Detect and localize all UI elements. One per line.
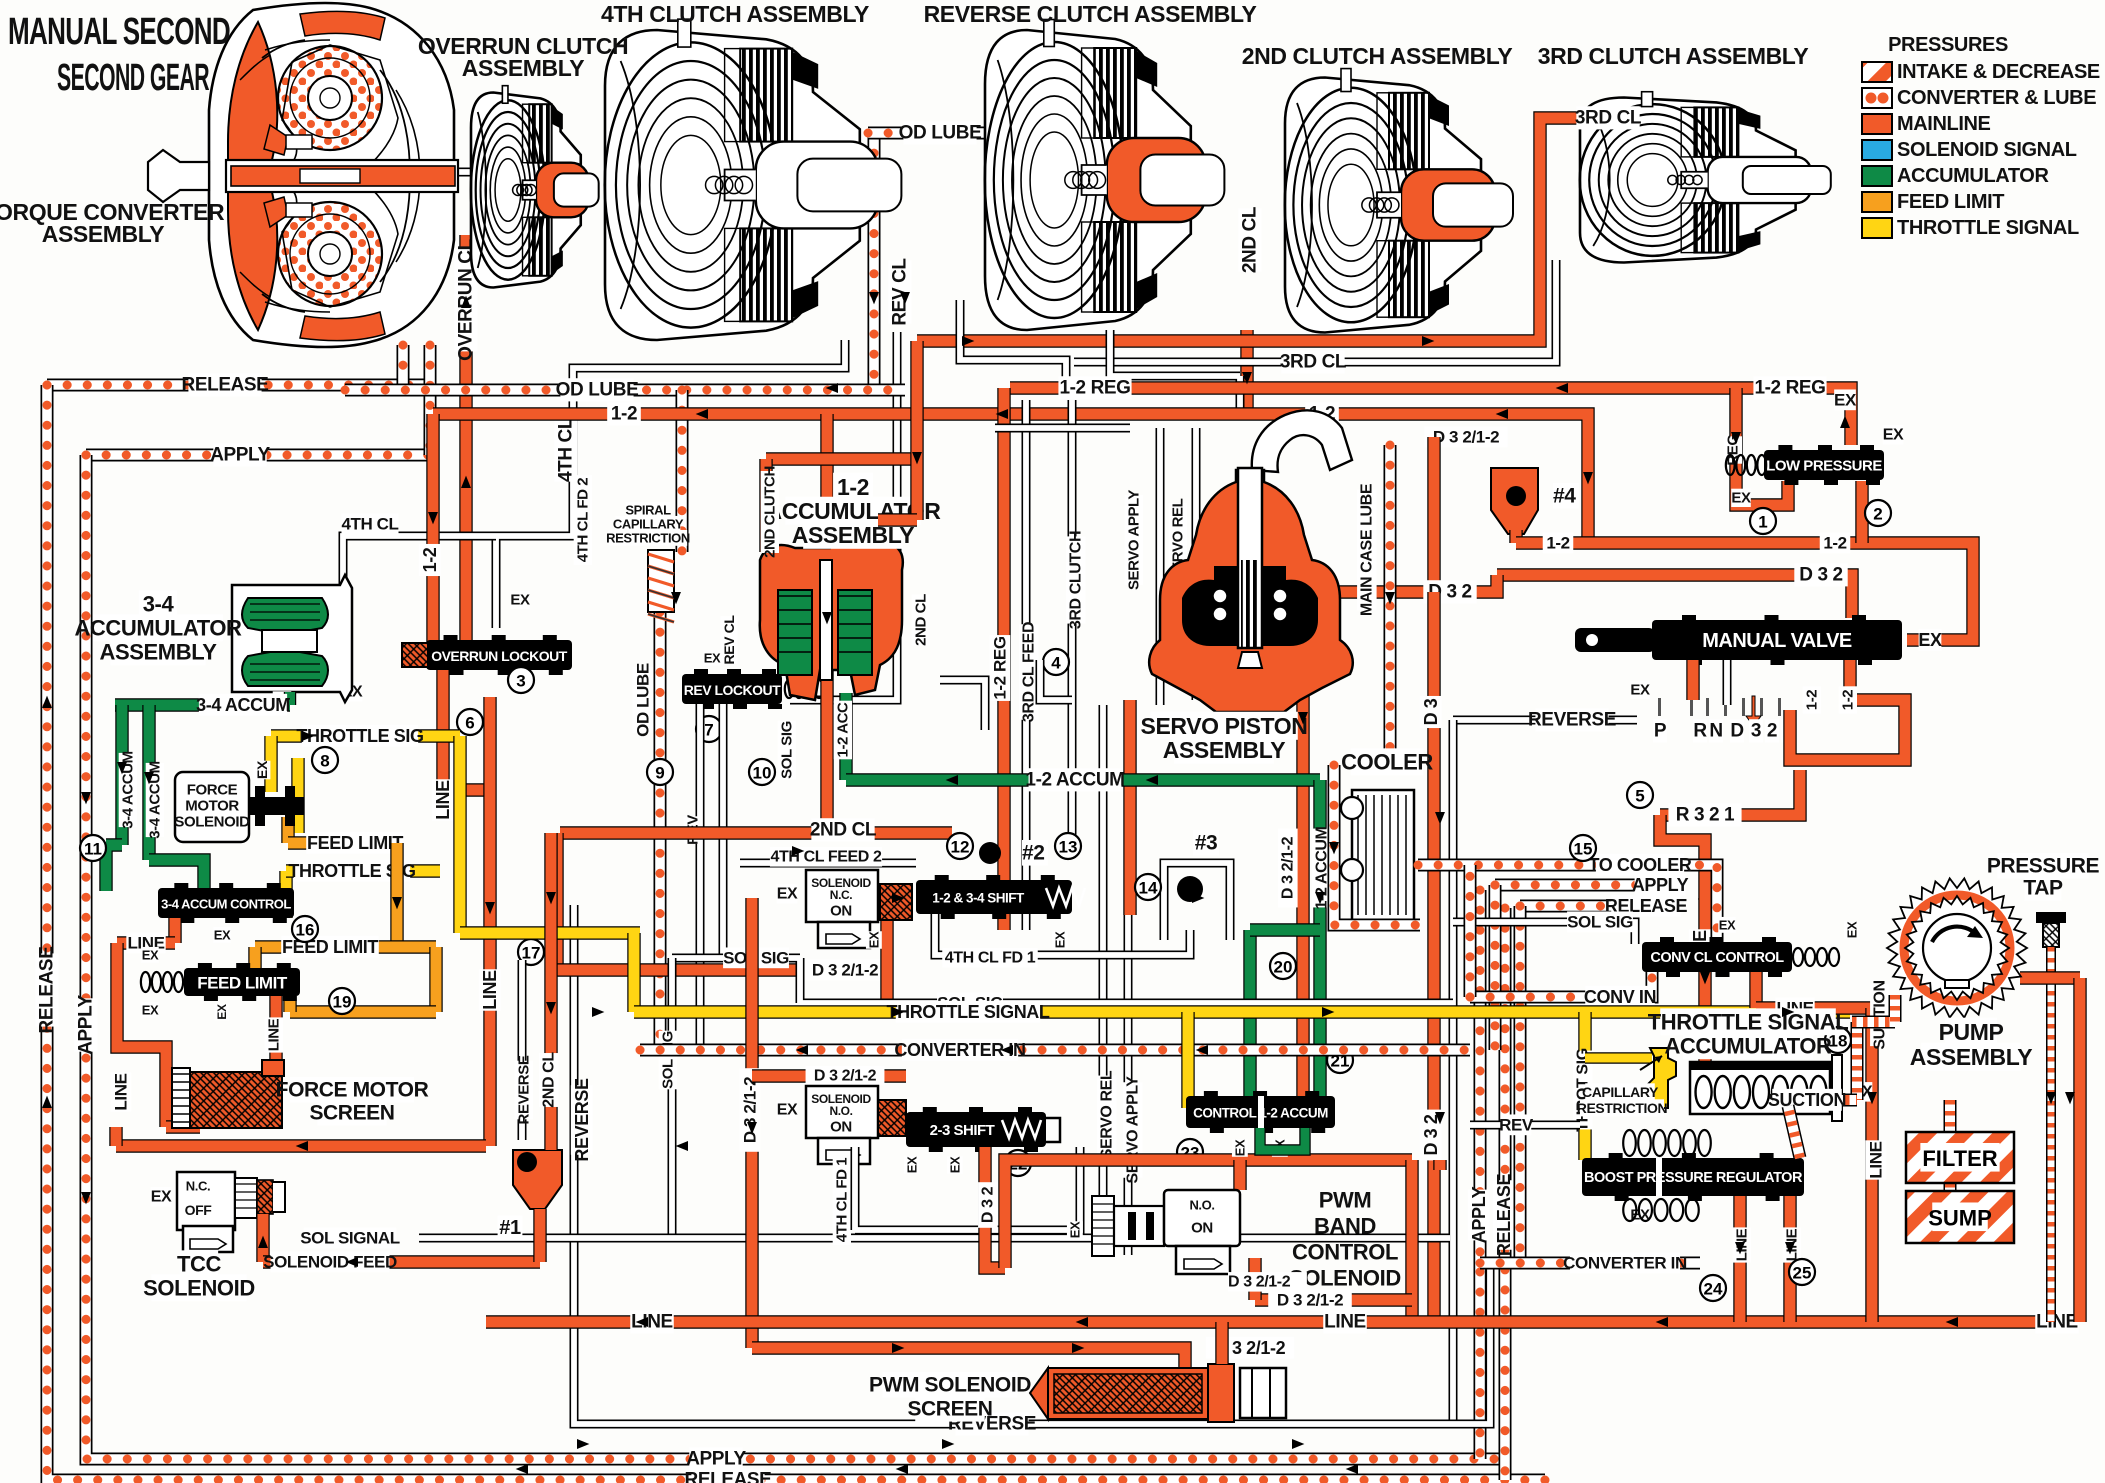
node (7) xyxy=(696,716,722,742)
svg-text:APPLY: APPLY xyxy=(1469,1186,1489,1243)
white channel SERVO APPLY 2 xyxy=(1128,428,1196,1255)
mainline low pressure out right xyxy=(1855,481,1868,543)
svg-text:4TH CLUTCH ASSEMBLY: 4TH CLUTCH ASSEMBLY xyxy=(601,1,869,27)
valve 3-4 ACCUM CONTROL xyxy=(158,883,294,923)
svg-text:CAPILLARY: CAPILLARY xyxy=(1582,1084,1659,1100)
throttle sig row2 xyxy=(286,864,440,877)
lube left inner border + bottom APPLY row xyxy=(86,455,1505,1459)
mainline 1-2 drop to overrun lockout xyxy=(426,414,439,645)
svg-text:2ND CL: 2ND CL xyxy=(810,820,877,841)
node (9) xyxy=(647,759,673,785)
node (13) xyxy=(1055,833,1081,859)
svg-text:12: 12 xyxy=(951,838,970,857)
svg-text:EX: EX xyxy=(214,928,231,943)
svg-text:R 3 2 1: R 3 2 1 xyxy=(1676,805,1735,826)
svg-text:8: 8 xyxy=(320,752,329,771)
mainline LINE below lockout xyxy=(443,670,490,790)
svg-text:EX: EX xyxy=(704,651,721,666)
svg-text:1-2 REG: 1-2 REG xyxy=(991,636,1010,700)
svg-text:BOOST PRESSURE REGULATOR: BOOST PRESSURE REGULATOR xyxy=(1584,1170,1803,1186)
lube OD LUBE vertical xyxy=(868,133,881,390)
svg-text:2ND CLUTCH: 2ND CLUTCH xyxy=(762,466,779,558)
svg-text:EX: EX xyxy=(142,1003,159,1018)
svg-text:EX: EX xyxy=(151,1189,172,1206)
svg-text:2ND CL: 2ND CL xyxy=(913,594,930,646)
svg-text:LINE: LINE xyxy=(1324,1312,1366,1333)
svg-text:16: 16 xyxy=(296,921,315,940)
mainline 2ND CL from clutch xyxy=(1240,330,1253,414)
svg-text:7: 7 xyxy=(704,721,713,740)
svg-text:4TH CL: 4TH CL xyxy=(556,417,577,482)
flow arrows xyxy=(696,409,708,419)
svg-text:REV CL: REV CL xyxy=(721,615,737,665)
mainline D 3 2/1-2 long vertical xyxy=(745,898,758,1348)
svg-text:CONTROL: CONTROL xyxy=(1292,1240,1398,1265)
svg-text:3-4 ACCUM: 3-4 ACCUM xyxy=(196,695,290,715)
lube OD LUBE down run upper xyxy=(676,390,689,552)
valve FEED LIMIT xyxy=(184,963,300,1001)
node (12) xyxy=(947,833,973,859)
mainline pwm loop top xyxy=(1005,1160,1412,1268)
mainline pwm loop right xyxy=(1405,1160,1418,1322)
green step to valve xyxy=(149,860,204,891)
svg-text:D 3 2/1-2: D 3 2/1-2 xyxy=(812,961,878,980)
svg-text:D 3 2/1-2: D 3 2/1-2 xyxy=(1433,428,1499,447)
valve 2-3 SHIFT xyxy=(906,1107,1046,1152)
component FILTER xyxy=(1906,1132,2014,1183)
white channel SOL SIG right xyxy=(1453,922,1635,944)
mainline into screen xyxy=(166,1120,200,1133)
svg-text:CONVERTER IN: CONVERTER IN xyxy=(1563,1254,1687,1273)
mainline link to boost xyxy=(1705,1050,1740,1100)
spiral capillary restriction xyxy=(648,550,674,622)
node (5) xyxy=(1627,782,1653,808)
svg-text:4TH CL FD 1: 4TH CL FD 1 xyxy=(834,1158,851,1243)
svg-text:COOLER: COOLER xyxy=(1341,750,1433,775)
node #2 xyxy=(979,842,1001,864)
valve REV LOCKOUT xyxy=(682,669,782,709)
svg-text:THROTTLE SIGNAL: THROTTLE SIGNAL xyxy=(1648,1010,1849,1035)
svg-text:D 3 2/1-2: D 3 2/1-2 xyxy=(1277,1291,1343,1310)
valve OVERRUN LOCKOUT xyxy=(426,635,572,675)
pressure tap line xyxy=(2046,947,2056,1322)
mainline pwm sol out xyxy=(1248,1258,1261,1300)
svg-text:CONVERTER & LUBE: CONVERTER & LUBE xyxy=(1897,87,2096,109)
mainline trunk upper xyxy=(1427,437,1440,592)
throttle sig row1 xyxy=(271,729,460,742)
svg-text:D 3 2/1-2: D 3 2/1-2 xyxy=(814,1068,877,1085)
svg-text:SCREEN: SCREEN xyxy=(309,1102,394,1125)
spring LOW PRESSURE xyxy=(1726,455,1766,475)
svg-text:MANUAL SECOND: MANUAL SECOND xyxy=(8,11,230,53)
lube apply right riser xyxy=(1474,890,1487,1459)
mainline 2nd cl to d32 row xyxy=(550,833,563,970)
svg-text:1-2: 1-2 xyxy=(611,404,637,425)
svg-text:#2: #2 xyxy=(1022,842,1045,865)
svg-text:EX: EX xyxy=(1918,630,1942,650)
svg-text:LOW PRESSURE: LOW PRESSURE xyxy=(1766,458,1882,475)
node (4) xyxy=(1043,649,1069,675)
component 3-4 ACCUMULATOR ASSEMBLY xyxy=(232,575,352,702)
svg-text:3: 3 xyxy=(516,672,525,691)
svg-text:17: 17 xyxy=(522,944,541,963)
svg-text:SERVO APPLY: SERVO APPLY xyxy=(1125,1076,1142,1184)
mainline manual valve out 1 xyxy=(1686,660,1699,700)
svg-text:D 3 2/1-2: D 3 2/1-2 xyxy=(1280,836,1297,899)
svg-text:CONV CL CONTROL: CONV CL CONTROL xyxy=(1650,950,1784,966)
valve 1-2 & 3-4 SHIFT xyxy=(916,875,1072,919)
svg-text:APPLY: APPLY xyxy=(1632,875,1689,895)
svg-text:REV CL: REV CL xyxy=(890,258,911,326)
svg-text:1-2 & 3-4 SHIFT: 1-2 & 3-4 SHIFT xyxy=(932,891,1025,906)
mainline 1-2 REG vertical xyxy=(997,388,1010,930)
white channel reverse drop xyxy=(1449,720,1458,1424)
svg-text:LINE: LINE xyxy=(433,780,453,820)
component PWM BAND CONTROL SOLENOID xyxy=(1092,1190,1240,1274)
throttle yellow into force motor xyxy=(264,736,277,792)
mainline pump out right xyxy=(2020,971,2080,984)
valve MANUAL VALVE xyxy=(1652,615,1902,665)
accumulator 1-2 ACC stem xyxy=(839,693,852,780)
svg-text:2-3 SHIFT: 2-3 SHIFT xyxy=(930,1122,995,1139)
spring 2-3 shift xyxy=(1002,1120,1041,1138)
component PUMP ASSEMBLY xyxy=(1887,878,2027,1017)
svg-text:N.O.: N.O. xyxy=(829,1104,852,1118)
pressure tap bolt xyxy=(2036,912,2066,947)
svg-text:APPLY: APPLY xyxy=(76,994,97,1054)
mainline D 3 2/1-2 drop to control accum xyxy=(1296,592,1309,1096)
svg-text:1-2: 1-2 xyxy=(1804,690,1821,711)
svg-text:OVERRUN LOCKOUT: OVERRUN LOCKOUT xyxy=(431,648,568,664)
lube conv in left riser xyxy=(1464,865,1477,997)
svg-text:MANUAL VALVE: MANUAL VALVE xyxy=(1702,630,1852,652)
mainline 2nd clutch riser xyxy=(910,341,923,520)
screen force motor body xyxy=(190,1072,282,1128)
svg-text:4TH CL FD 1: 4TH CL FD 1 xyxy=(945,950,1036,967)
svg-text:EX: EX xyxy=(215,1004,229,1020)
trunk joint xyxy=(1433,1160,1446,1170)
svg-text:BAND: BAND xyxy=(1314,1214,1376,1239)
svg-text:R: R xyxy=(1693,721,1707,742)
white channel manual valve ex xyxy=(1723,660,1732,705)
suction channel row xyxy=(1790,1094,1857,1107)
green vertical B xyxy=(142,705,155,860)
mainline #4 stem xyxy=(1509,530,1522,543)
svg-text:INTAKE & DECREASE: INTAKE & DECREASE xyxy=(1897,61,2100,83)
component SUMP xyxy=(1906,1191,2014,1243)
svg-text:LINE: LINE xyxy=(112,1073,131,1110)
mainline D 3 2/1-2 row center xyxy=(557,963,880,976)
svg-text:3-4 ACCUM CONTROL: 3-4 ACCUM CONTROL xyxy=(161,897,291,912)
svg-text:THROTTLE SIGNAL: THROTTLE SIGNAL xyxy=(1897,217,2079,239)
component COOLER xyxy=(1341,790,1414,920)
svg-text:SOLENOID SIGNAL: SOLENOID SIGNAL xyxy=(1897,139,2077,161)
valve BOOST PRESSURE REGULATOR xyxy=(1582,1153,1804,1201)
mainline LINE bottom row xyxy=(486,1315,2070,1328)
svg-text:EX: EX xyxy=(254,760,270,779)
white channel SERVO REL vertical xyxy=(1103,428,1160,1235)
mainline D 3 2 row A xyxy=(1497,575,1852,618)
throt sig drop right xyxy=(1578,1012,1591,1160)
svg-text:SOLENOID: SOLENOID xyxy=(143,1276,255,1301)
svg-text:3RD CLUTCH: 3RD CLUTCH xyxy=(1068,531,1085,629)
node (6) xyxy=(457,709,483,735)
svg-text:SPIRAL: SPIRAL xyxy=(625,503,671,518)
svg-text:EX: EX xyxy=(1719,918,1736,933)
accumulator loop left xyxy=(1243,930,1256,1098)
lube APPLY mid row xyxy=(1495,879,1640,892)
mainline LINE row left xyxy=(117,936,175,949)
component PWM SOLENOID SCREEN xyxy=(1030,1364,1286,1422)
spring rev lockout xyxy=(785,680,823,698)
screen shift solenoid xyxy=(880,884,912,920)
white channel TC shaft to overrun clutch xyxy=(450,168,530,177)
component 2ND CLUTCH ASSEMBLY xyxy=(1285,69,1513,333)
component 3RD CLUTCH ASSEMBLY xyxy=(1580,92,1831,263)
svg-text:TAP: TAP xyxy=(2023,877,2063,900)
lube APPLY top row xyxy=(86,449,430,462)
mainline #1 to solenoid feed xyxy=(533,1209,546,1262)
mainline D 3 2/1-2 upper row xyxy=(1434,430,1494,443)
svg-text:OD LUBE: OD LUBE xyxy=(899,123,982,144)
svg-text:D 3 2: D 3 2 xyxy=(1421,1114,1441,1155)
svg-text:SOL SIG: SOL SIG xyxy=(779,721,796,779)
mainline D 3 2/1-2 pwm bottom xyxy=(1255,1293,1412,1306)
node (10) xyxy=(749,759,775,785)
node (18) xyxy=(1825,1027,1851,1053)
svg-text:20: 20 xyxy=(1274,958,1293,977)
svg-text:PWM SOLENOID: PWM SOLENOID xyxy=(869,1374,1031,1397)
svg-text:2: 2 xyxy=(1767,721,1777,742)
lube OD LUBE row 2 xyxy=(345,384,905,397)
svg-text:SOLENOID FEED: SOLENOID FEED xyxy=(263,1253,397,1272)
svg-text:D 3 2: D 3 2 xyxy=(1799,565,1842,586)
node (23) xyxy=(1177,1139,1203,1165)
svg-text:MAINLINE: MAINLINE xyxy=(1897,113,1991,135)
white channel sweep 2 xyxy=(1110,330,1240,414)
svg-text:LINE: LINE xyxy=(2036,1312,2078,1333)
white channel rev lockout down1 xyxy=(696,704,705,1050)
component TCC SOLENOID xyxy=(177,1172,285,1252)
spring boost xyxy=(1623,1130,1711,1156)
svg-text:PRESSURES: PRESSURES xyxy=(1888,34,2008,56)
feed limit drop xyxy=(390,843,403,947)
svg-text:D 3 2: D 3 2 xyxy=(980,1186,997,1223)
feed limit stub from solenoid xyxy=(281,817,294,843)
mainline tcc to solenoid feed xyxy=(256,1214,269,1262)
node (15) xyxy=(1570,835,1596,861)
svg-text:PWM: PWM xyxy=(1319,1188,1372,1213)
svg-text:#3: #3 xyxy=(1195,832,1218,855)
svg-text:MOTOR: MOTOR xyxy=(185,798,239,815)
white channel nest near #2 xyxy=(940,660,1072,730)
svg-text:3RD CL: 3RD CL xyxy=(1575,108,1642,129)
throttle to capillary xyxy=(1585,1052,1652,1063)
feed limit valve right port xyxy=(283,993,296,1012)
svg-text:EX: EX xyxy=(905,1156,920,1173)
svg-text:3RD CLUTCH ASSEMBLY: 3RD CLUTCH ASSEMBLY xyxy=(1538,43,1809,69)
svg-text:3RD CL FEED: 3RD CL FEED xyxy=(1021,622,1038,722)
mainline screen left link xyxy=(109,1127,122,1146)
svg-text:4TH CL: 4TH CL xyxy=(341,515,398,534)
svg-text:CAPILLARY: CAPILLARY xyxy=(613,517,684,532)
svg-text:RESTRICTION: RESTRICTION xyxy=(606,531,690,546)
white channel REVERSE long bottom xyxy=(574,905,1490,1424)
component SOLENOID N.C. (1-2 & 3-4 shift) xyxy=(806,870,878,948)
svg-text:ON: ON xyxy=(830,903,852,920)
svg-text:EX: EX xyxy=(142,948,159,963)
green under control valve xyxy=(1260,1128,1305,1150)
svg-text:D: D xyxy=(1730,721,1743,742)
throttle signal long row xyxy=(634,1005,1850,1018)
svg-text:RELEASE: RELEASE xyxy=(37,947,58,1034)
component OVERRUN CLUTCH ASSEMBLY xyxy=(471,86,599,288)
mainline accumulator left riser xyxy=(759,459,772,552)
svg-text:#4: #4 xyxy=(1553,485,1576,508)
node (17) xyxy=(518,939,544,965)
white channel REV row xyxy=(1470,1121,1580,1130)
mainline 1-2 reg U loop xyxy=(1736,388,1788,505)
node (11) xyxy=(80,835,106,861)
svg-text:ASSEMBLY: ASSEMBLY xyxy=(42,221,165,247)
svg-text:RELEASE: RELEASE xyxy=(182,375,269,396)
white channel 3RD CLUTCH xyxy=(1068,400,1077,845)
svg-text:OD LUBE: OD LUBE xyxy=(556,380,639,401)
mainline 2ND CL vertical xyxy=(820,414,833,833)
white channel 4TH CL run xyxy=(496,340,845,628)
svg-text:D 3 2/1-2: D 3 2/1-2 xyxy=(741,1077,760,1143)
svg-text:MAIN CASE LUBE: MAIN CASE LUBE xyxy=(1359,483,1376,616)
svg-text:SECOND GEAR: SECOND GEAR xyxy=(57,57,209,99)
mainline 3RD CL riser run xyxy=(917,118,1640,341)
mainline LINE right vertical xyxy=(1865,1008,1878,1322)
svg-text:TCC: TCC xyxy=(177,1252,222,1277)
lube release drop xyxy=(1514,906,1527,1263)
accumulator drop to control valve xyxy=(1313,780,1326,1098)
mainline manual valve out loop xyxy=(1790,660,1905,760)
white channel 4th cl feed 2 xyxy=(740,859,916,868)
accumulator loop top xyxy=(1250,923,1320,936)
svg-text:D 3: D 3 xyxy=(1421,698,1441,725)
lube apply drop xyxy=(1489,885,1502,1050)
node (24) xyxy=(1700,1275,1726,1301)
mainline 2nd clutch link row xyxy=(766,452,917,465)
spring 1-2 3-4 shift xyxy=(1046,888,1085,906)
svg-text:REV: REV xyxy=(1499,1116,1534,1135)
feed limit right drop xyxy=(429,947,442,1012)
svg-text:2: 2 xyxy=(1873,505,1882,524)
mainline 1-2 long row xyxy=(433,414,1588,543)
valve LOW PRESSURE xyxy=(1764,445,1884,485)
white channel at #3 xyxy=(1164,863,1230,940)
lube TC apply drop xyxy=(424,345,437,455)
feed limit row3 xyxy=(290,1005,436,1018)
svg-text:1-2: 1-2 xyxy=(1840,690,1857,711)
lube TC release drop xyxy=(397,345,410,385)
svg-text:25: 25 xyxy=(1793,1264,1812,1283)
green jog to valve xyxy=(106,845,122,891)
throttle sig stub valve xyxy=(279,871,292,918)
svg-text:RESTRICTION: RESTRICTION xyxy=(1577,1100,1668,1116)
svg-text:SOL SIG: SOL SIG xyxy=(660,1031,677,1089)
node (21) xyxy=(1327,1047,1353,1073)
lube MAIN CASE LUBE xyxy=(1384,445,1397,765)
node (22) xyxy=(1005,1150,1031,1176)
lube cooler loop xyxy=(1334,765,1420,925)
throttle to control valve xyxy=(1181,1012,1194,1108)
svg-text:24: 24 xyxy=(1704,1280,1723,1299)
svg-text:ON: ON xyxy=(830,1119,852,1136)
svg-text:SUCTION: SUCTION xyxy=(1872,980,1889,1049)
svg-text:EX: EX xyxy=(1731,490,1751,507)
svg-text:ACCUMULATOR: ACCUMULATOR xyxy=(1897,165,2049,187)
node (1) xyxy=(1750,508,1776,534)
feed limit row2 xyxy=(255,940,436,953)
mainline right lower vertical xyxy=(2073,978,2086,1322)
component throttle signal accumulator spring xyxy=(1690,1055,1842,1121)
svg-text:SCREEN: SCREEN xyxy=(907,1398,992,1421)
mainline line riser below manual valve xyxy=(1698,898,1711,1050)
white channel SOL SIG long xyxy=(672,958,1453,1003)
svg-text:1-2: 1-2 xyxy=(1546,534,1569,553)
spring feed limit xyxy=(141,972,183,992)
mainline conv cl out xyxy=(1749,972,1762,1008)
mainline R 3 2 1 row xyxy=(1660,770,1800,815)
filter-sump stub xyxy=(1944,1183,1957,1191)
manual valve position ticks P RN D321 xyxy=(1658,696,1781,726)
node (3) xyxy=(508,667,534,693)
throttle yellow loop2 xyxy=(291,758,304,833)
svg-text:D 3 2/1-2: D 3 2/1-2 xyxy=(1228,1274,1291,1291)
lube CONV IN row xyxy=(1470,972,1652,997)
lube release right riser xyxy=(1499,908,1512,1480)
mainline LINE link xyxy=(1756,1001,1872,1014)
green vertical A xyxy=(115,705,128,845)
feed limit valve top stem xyxy=(248,947,261,971)
svg-text:1: 1 xyxy=(1758,513,1767,532)
svg-text:4: 4 xyxy=(1051,654,1061,673)
node (20) xyxy=(1270,953,1296,979)
mainline into pwm solenoid xyxy=(1233,1160,1246,1190)
mainline d32 link to 2-3 shift xyxy=(752,1069,906,1082)
svg-text:LINE: LINE xyxy=(480,970,500,1010)
mainline D 3 2 row B xyxy=(1303,575,1497,592)
svg-text:3: 3 xyxy=(1751,721,1761,742)
svg-text:SUMP: SUMP xyxy=(1928,1206,1992,1231)
svg-text:1-2: 1-2 xyxy=(837,474,869,500)
mainline line down left xyxy=(117,943,166,1127)
svg-text:3RD CL: 3RD CL xyxy=(1280,352,1347,373)
svg-text:FEED LIMIT: FEED LIMIT xyxy=(197,974,288,993)
component SOLENOID N.O. (2-3 shift) xyxy=(806,1086,878,1164)
node (8) xyxy=(312,747,338,773)
svg-text:2ND CL: 2ND CL xyxy=(541,1052,558,1108)
svg-text:OFF: OFF xyxy=(185,1202,213,1218)
white channel 3RD CL xyxy=(1074,260,1556,362)
mainline SOLENOID FEED row xyxy=(263,1255,540,1268)
svg-text:APPLY: APPLY xyxy=(210,445,270,466)
component SERVO PISTON ASSEMBLY xyxy=(1149,410,1353,712)
capillary restriction blob xyxy=(1648,1048,1676,1108)
svg-text:REV LOCKOUT: REV LOCKOUT xyxy=(684,682,781,698)
white channel REV CL run xyxy=(790,332,897,700)
svg-text:N.C.: N.C. xyxy=(186,1179,210,1194)
svg-text:FEED LIMIT: FEED LIMIT xyxy=(307,833,403,853)
component FORCE MOTOR SOLENOID xyxy=(175,772,304,842)
svg-text:SERVO REL: SERVO REL xyxy=(1099,1070,1116,1159)
svg-text:N: N xyxy=(1709,721,1722,742)
mainline LINE vertical 490 xyxy=(483,697,496,1146)
